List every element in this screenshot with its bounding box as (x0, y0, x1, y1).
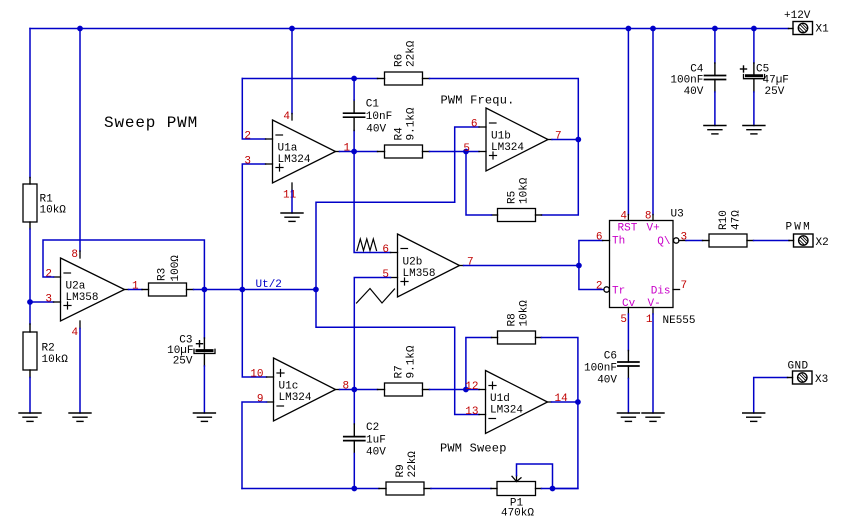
timer U3 NE555 (603, 215, 687, 315)
svg-text:Th: Th (612, 236, 625, 248)
wire top +12V bus (30, 28, 789, 30)
svg-text:R7: R7 (394, 365, 406, 378)
svg-text:LM324: LM324 (491, 142, 524, 154)
op-amp U1c (267, 358, 340, 421)
svg-text:C2: C2 (366, 422, 379, 434)
wire NE555 pin4 drop (627, 29, 629, 215)
wire R8 left to pin12 node (466, 338, 492, 390)
resistor R7 (378, 383, 430, 396)
wire X3 to ground (754, 378, 788, 414)
ground under C3 (193, 413, 215, 421)
ground under X3 (743, 413, 765, 421)
junction U2b out (576, 263, 582, 269)
svg-text:7: 7 (681, 280, 688, 292)
svg-text:4: 4 (620, 211, 627, 223)
svg-text:10nF: 10nF (366, 111, 392, 123)
svg-text:8: 8 (343, 381, 350, 393)
ground under R2 (19, 413, 41, 421)
wire Q to R10 (686, 240, 703, 242)
capacitor C2 (344, 424, 365, 454)
wire P1 wiper (517, 464, 553, 489)
wire R2 to ground (29, 378, 31, 414)
svg-text:C1: C1 (366, 98, 380, 110)
terminal X3 (793, 371, 813, 384)
wire R6 line left (242, 78, 377, 80)
wire C2 top (353, 390, 355, 425)
wire U2a feedback pin2 (43, 240, 204, 290)
resistor R9 (379, 482, 431, 495)
wire C4 top (714, 29, 716, 64)
wire left bus vertical to R1 (29, 29, 31, 178)
ground under C4 (704, 126, 726, 134)
wire U2b output (464, 265, 579, 267)
svg-text:R2: R2 (42, 343, 55, 355)
junction top bus at NE555 RST (626, 26, 632, 32)
svg-text:PWM: PWM (786, 222, 812, 234)
junction R6 line at C1 (351, 76, 357, 82)
svg-text:Cv: Cv (622, 298, 636, 310)
capacitor C3 polarized (194, 338, 215, 366)
svg-text:LM358: LM358 (403, 268, 436, 280)
junction Ut/2 at U1a pin3 branch (239, 287, 245, 293)
wire U1c pin10 from Ut/2 (242, 290, 266, 378)
wire U2b pin5 from U1c out (354, 278, 390, 390)
svg-text:U1c: U1c (279, 381, 299, 393)
junction top bus at C5 (751, 26, 757, 32)
capacitor C4 (705, 63, 726, 92)
wire C5 top (753, 29, 755, 64)
svg-text:U1a: U1a (278, 143, 298, 155)
junction U1d pin12 R8 (463, 387, 469, 393)
wire U2b out down to NE555 Tr (579, 266, 604, 290)
op-amp U1a (266, 114, 340, 191)
junction P1 wiper (550, 486, 556, 492)
wire U1a pin2 from R6 line (242, 79, 265, 140)
wire U1c output (340, 389, 378, 391)
svg-text:8: 8 (71, 249, 78, 261)
ground under NE555 V- (642, 413, 664, 421)
svg-text:LM324: LM324 (279, 392, 312, 404)
junction R1 R2 U2a pin3 (27, 299, 33, 305)
svg-text:6: 6 (596, 232, 603, 244)
wire R5 left to pin5 node (466, 152, 492, 216)
svg-text:7: 7 (555, 131, 562, 143)
svg-text:U1d: U1d (490, 393, 510, 405)
svg-text:9.1kΩ: 9.1kΩ (406, 107, 418, 140)
svg-text:1: 1 (344, 143, 351, 155)
svg-text:14: 14 (555, 393, 569, 405)
wire X2 lead (789, 240, 794, 242)
svg-text:8: 8 (645, 211, 652, 223)
resistor R1 (23, 178, 37, 230)
svg-text:2: 2 (596, 281, 603, 293)
sawtooth icon at U2b pin5 (357, 289, 395, 304)
svg-text:V+: V+ (647, 223, 660, 235)
svg-text:X3: X3 (815, 374, 828, 386)
junction Ut/2 at C3 (202, 287, 208, 293)
junction U1c out at C2 (351, 387, 357, 393)
svg-text:9.1kΩ: 9.1kΩ (406, 345, 418, 378)
capacitor C1 (344, 100, 365, 131)
ground under U1a pin11 (281, 213, 303, 221)
svg-text:100nF: 100nF (670, 74, 703, 86)
svg-text:5: 5 (620, 314, 627, 326)
svg-text:40V: 40V (366, 447, 386, 459)
wire R3 to Ut/2 node (194, 289, 316, 291)
svg-text:10kΩ: 10kΩ (40, 205, 67, 217)
wire C3 to ground (203, 366, 205, 413)
svg-text:6: 6 (382, 244, 389, 256)
junction U1b out (575, 137, 581, 143)
sawtooth icon at U2b pin6 (357, 239, 377, 251)
svg-text:25V: 25V (765, 86, 785, 98)
svg-text:10kΩ: 10kΩ (519, 177, 531, 204)
svg-text:7: 7 (467, 257, 474, 269)
svg-text:11: 11 (283, 190, 297, 202)
wire U1b out down to R5 (542, 140, 579, 216)
svg-text:NE555: NE555 (663, 315, 696, 327)
svg-text:10: 10 (250, 369, 263, 381)
svg-text:22kΩ: 22kΩ (407, 451, 419, 478)
junction bottom bus at C2 (351, 486, 357, 492)
svg-text:Q\: Q\ (657, 236, 670, 248)
svg-text:9: 9 (257, 394, 264, 406)
svg-text:U1b: U1b (491, 131, 511, 143)
svg-text:25V: 25V (173, 355, 193, 367)
wire U2b out up to NE555 Th (579, 241, 603, 266)
wire X3 lead (788, 377, 793, 379)
svg-text:22kΩ: 22kΩ (406, 40, 418, 67)
wire NE555 pin8 drop (652, 29, 654, 215)
wire U1a pin4 drop (291, 29, 293, 114)
wire R10 to X2 (754, 240, 790, 242)
wire U1d output (552, 401, 578, 403)
svg-text:47Ω: 47Ω (731, 210, 743, 230)
svg-text:R8: R8 (507, 313, 519, 326)
svg-text:LM324: LM324 (278, 154, 311, 166)
wire C2 bottom to bus (353, 454, 355, 489)
svg-text:PWM Frequ.: PWM Frequ. (441, 93, 515, 107)
svg-text:R10: R10 (718, 210, 730, 230)
svg-text:Sweep PWM: Sweep PWM (104, 114, 198, 132)
wire U2a pin4 to ground (79, 329, 81, 414)
op-amp U2b (391, 234, 464, 297)
svg-text:LM324: LM324 (490, 405, 523, 417)
svg-text:C6: C6 (604, 351, 617, 363)
junction top bus at U1a pin4 (289, 26, 295, 32)
wire C6 to ground (627, 379, 629, 414)
svg-text:4: 4 (283, 111, 290, 123)
svg-text:13: 13 (465, 406, 478, 418)
wire U1d out down to P1 (553, 402, 578, 489)
svg-text:12: 12 (465, 381, 478, 393)
resistor R2 (23, 324, 37, 378)
svg-text:2: 2 (244, 131, 251, 143)
capacitor C6 (618, 351, 639, 379)
svg-text:U3: U3 (671, 209, 684, 221)
wire NE555 V- to ground (652, 314, 654, 413)
svg-text:Tr: Tr (612, 286, 625, 298)
op-amp U2a (54, 251, 129, 329)
op-amp U1b (479, 108, 552, 171)
wire U1a output to R4 (340, 151, 378, 153)
svg-text:R5: R5 (507, 191, 519, 204)
svg-text:U2a: U2a (66, 281, 86, 293)
ground under C6 (617, 413, 639, 421)
svg-text:R4: R4 (394, 127, 406, 141)
svg-text:6: 6 (471, 119, 478, 131)
wire C3 top (203, 290, 205, 339)
resistor R8 (492, 331, 542, 344)
svg-text:100nF: 100nF (584, 363, 617, 375)
svg-text:100Ω: 100Ω (170, 255, 182, 282)
svg-text:4: 4 (72, 327, 79, 339)
svg-text:3: 3 (681, 232, 688, 244)
wire U1a pin11 to ground (291, 191, 293, 214)
resistor R3 (142, 283, 194, 296)
resistor R4 (378, 145, 430, 158)
wire U2a pin8 drop (79, 29, 81, 252)
wire NE555 Cv down (627, 314, 629, 351)
svg-text:R3: R3 (157, 268, 169, 281)
potentiometer P1 (491, 476, 542, 496)
wire R6 right to U1b out (430, 79, 579, 137)
svg-text:U2b: U2b (403, 257, 423, 269)
svg-text:PWM Sweep: PWM Sweep (440, 442, 507, 456)
wire U1b pin6 from Ut/2 branch (316, 202, 455, 289)
wire R4 to U1b pin5 (430, 151, 480, 153)
svg-text:470kΩ: 470kΩ (501, 508, 534, 520)
junction U1b pin5 R5 (463, 149, 469, 155)
svg-text:3: 3 (244, 156, 251, 168)
wire R9 to P1 (431, 488, 491, 490)
svg-text:10kΩ: 10kΩ (42, 354, 69, 366)
wire R1 to R2 node (29, 229, 31, 324)
wire U1c pin9 down to bottom bus (242, 402, 267, 489)
svg-text:V-: V- (648, 298, 661, 310)
svg-text:RST: RST (618, 223, 638, 235)
wire C4 bottom (714, 92, 716, 126)
svg-text:40V: 40V (597, 375, 617, 387)
wire U1b output (552, 139, 578, 141)
svg-text:47µF: 47µF (763, 75, 789, 87)
junction top bus at C4 (712, 26, 718, 32)
svg-text:Ut/2: Ut/2 (256, 279, 282, 291)
wire U2b pin6 from U1a out (354, 152, 390, 253)
resistor R5 (492, 209, 542, 222)
wire C1 bottom (353, 131, 355, 152)
resistor R6 (378, 72, 430, 85)
wire U2a output (129, 289, 143, 291)
svg-text:40V: 40V (366, 124, 386, 136)
svg-text:1uF: 1uF (366, 434, 386, 446)
junction top bus at U2a pin8 (77, 26, 83, 32)
wire C5 bottom (753, 92, 755, 126)
ground under U2a pin4 (69, 413, 91, 421)
resistor R10 (703, 234, 754, 247)
terminal X2 (794, 234, 814, 247)
junction top bus at NE555 V+ (650, 26, 656, 32)
wire P1 right (542, 488, 578, 490)
svg-text:Dis: Dis (651, 286, 671, 298)
svg-text:5: 5 (382, 269, 389, 281)
svg-text:X1: X1 (816, 24, 830, 36)
wire C1 top to R6 line (353, 79, 355, 101)
svg-text:40V: 40V (684, 86, 704, 98)
svg-text:X2: X2 (816, 237, 829, 249)
svg-text:R9: R9 (395, 464, 407, 477)
svg-text:GND: GND (788, 361, 809, 373)
svg-text:+12V: +12V (784, 10, 811, 22)
terminal X1 (793, 22, 813, 35)
wire U1a pin3 from Ut/2 (242, 164, 265, 290)
svg-text:R6: R6 (394, 54, 406, 67)
junction U1d out (575, 399, 581, 405)
wire bottom bus (242, 488, 379, 490)
wire R7 to U1d pin12 (430, 389, 480, 391)
junction Ut/2 at branch (313, 287, 319, 293)
junction U1a out at C1 (351, 149, 357, 155)
wire Ut/2 branch down to U1d pin13 (316, 290, 479, 415)
wire R8 right to U1d out (542, 338, 578, 403)
wire X1 lead (789, 28, 794, 30)
svg-text:10kΩ: 10kΩ (519, 300, 531, 327)
svg-text:LM358: LM358 (66, 292, 99, 304)
op-amp U1d (479, 371, 552, 434)
svg-text:3: 3 (45, 294, 52, 306)
capacitor C5 polarized (741, 63, 765, 92)
svg-text:1: 1 (646, 314, 653, 326)
ground under C5 (743, 126, 765, 134)
svg-text:2: 2 (45, 269, 52, 281)
svg-text:1: 1 (132, 281, 139, 293)
svg-text:C5: C5 (756, 63, 769, 75)
wire node to U2a pin3 (30, 301, 54, 303)
